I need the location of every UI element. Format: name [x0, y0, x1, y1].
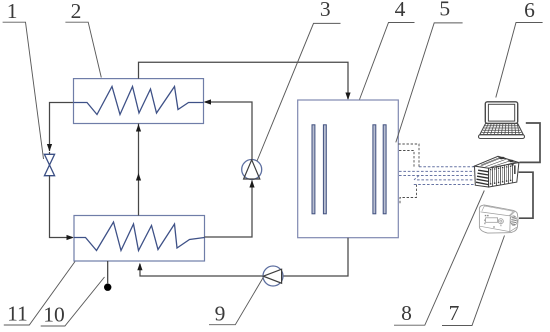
drain stub to port 10	[107, 261, 109, 283]
leader line 5	[396, 23, 463, 142]
leader line 6	[496, 23, 543, 98]
wire pump 3 to heat exchanger 2 right	[205, 102, 252, 160]
arrow up into heat exchanger 2 bottom	[136, 124, 141, 132]
svg-text:5: 5	[439, 0, 450, 20]
leader line 11	[4, 262, 75, 326]
dashed tap box upper on cell stack 4	[398, 144, 419, 167]
leader line 2	[65, 22, 101, 77]
computer 6 (laptop)	[479, 102, 525, 139]
wire from valve to heat exchanger 2 left	[50, 103, 74, 155]
electrode plate pair right of 4	[373, 125, 386, 214]
pump 3	[242, 160, 262, 180]
arrow down into cell stack 4 top	[345, 93, 350, 101]
arrow down above valve 1	[47, 144, 52, 152]
leader line 10	[41, 277, 105, 326]
svg-text:4: 4	[395, 0, 406, 21]
heat exchanger 11 coil	[74, 222, 205, 251]
leader line 1	[3, 22, 44, 159]
leader line 9	[209, 278, 263, 325]
wire from valve to heat exchanger 11 left	[50, 176, 73, 238]
pump 9	[263, 266, 283, 286]
svg-text:11: 11	[7, 301, 28, 325]
svg-text:7: 7	[449, 301, 460, 325]
arrow up into heat exchanger 11 bottom	[137, 263, 142, 271]
arrow right into heat exchanger 11	[67, 235, 75, 240]
leader line 4	[360, 23, 415, 100]
data acquisition unit 8	[475, 156, 519, 187]
arrow left into heat exchanger 2 right	[204, 99, 212, 104]
dashed tap box lower on cell stack 4	[400, 185, 417, 205]
wire heat exchanger 11 right to pump 3	[205, 181, 253, 238]
heat exchanger 2 coil	[74, 87, 204, 115]
electrode plate pair left of 4	[312, 125, 326, 214]
wire data acquisition unit 8 to power supply 7	[519, 172, 533, 218]
wire computer 6 to data acquisition unit 8	[520, 123, 541, 162]
svg-text:3: 3	[320, 0, 331, 21]
svg-text:10: 10	[43, 303, 65, 327]
wire heat exchanger 11 top to heat exchanger 2 bottom	[138, 124, 140, 216]
wire cell stack 4 bottom to pump 9 to heat exchanger 11	[140, 238, 348, 276]
heat exchanger 11 box	[74, 216, 205, 262]
svg-text:6: 6	[524, 0, 535, 22]
valve 1	[44, 154, 54, 175]
leader line 8	[394, 191, 484, 326]
svg-text:8: 8	[401, 301, 412, 325]
wire heat exchanger 2 top loop to cell stack 4	[139, 62, 349, 99]
leader line 7	[442, 236, 505, 326]
heat exchanger 2 box	[74, 79, 204, 124]
leader line 3	[257, 23, 341, 161]
cell stack 4 box	[298, 100, 399, 238]
port dot 10	[104, 284, 111, 291]
dashed sense lines to data acquisition unit 8	[399, 167, 474, 185]
arrow up into pump 3	[249, 180, 254, 188]
svg-text:1: 1	[7, 0, 18, 23]
svg-text:9: 9	[215, 301, 226, 325]
power supply 7	[479, 205, 518, 233]
arrow up mid vertical wire	[136, 173, 141, 181]
svg-text:2: 2	[71, 0, 82, 23]
